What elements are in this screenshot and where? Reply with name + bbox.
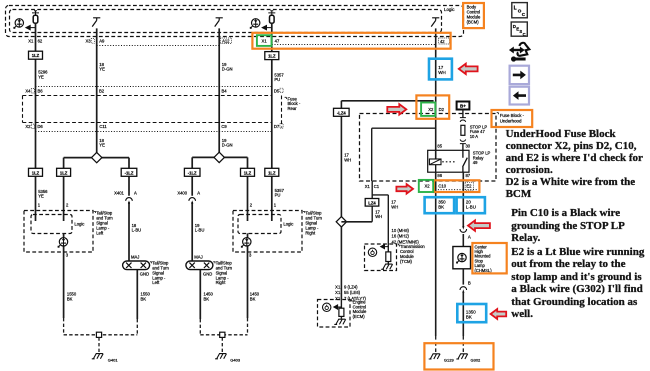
svg-text:D6: D6 [37,124,43,129]
svg-text:Right: Right [305,230,316,235]
svg-text:B4: B4 [221,88,227,93]
svg-text:X1: X1 [335,284,341,289]
svg-text:1: 1 [38,202,41,207]
svg-text:1LZ: 1LZ [268,54,276,59]
svg-text:1: 1 [274,202,277,207]
svg-text:X4: X4 [25,88,31,93]
svg-text:62: 62 [38,38,43,43]
svg-text:C1: C1 [374,184,380,189]
svg-text:D5: D5 [274,88,280,93]
svg-text:86: 86 [437,173,442,178]
svg-text:X1: X1 [262,38,268,43]
svg-text:55 (LE6): 55 (LE6) [344,290,361,295]
svg-text:-1LZ: -1LZ [125,170,134,175]
svg-text:D-GN: D-GN [222,67,233,72]
svg-text:42: 42 [440,39,445,44]
svg-text:1LZ: 1LZ [32,170,40,175]
svg-text:X401: X401 [114,191,124,196]
svg-text:BK: BK [466,314,472,319]
svg-text:D7: D7 [274,124,280,129]
svg-text:YE: YE [99,143,105,148]
svg-text:X400: X400 [177,191,187,196]
svg-text:A9: A9 [99,38,105,43]
svg-text:Left: Left [96,230,104,235]
svg-text:X1: X1 [28,38,34,43]
svg-text:L-BU: L-BU [195,228,205,233]
svg-text:D2: D2 [439,107,445,112]
svg-text:BK: BK [67,296,73,301]
svg-text:WH: WH [438,70,446,75]
svg-text:B6: B6 [37,88,43,93]
svg-text:BK: BK [141,296,147,301]
svg-text:BK: BK [438,204,444,209]
svg-text:L: L [514,5,517,11]
svg-text:10 A: 10 A [470,134,479,139]
svg-text:MAJ: MAJ [131,255,139,260]
svg-text:MAJ: MAJ [194,255,202,260]
svg-text:85: 85 [437,144,442,149]
svg-text:A: A [468,234,471,239]
svg-text:PU: PU [275,193,281,198]
svg-text:A: A [134,191,137,196]
svg-text:16 (MH2): 16 (MH2) [392,234,410,239]
svg-text:LZ4: LZ4 [368,200,376,205]
svg-text:1LZ: 1LZ [244,170,252,175]
svg-text:GND: GND [140,271,149,276]
svg-text:Right: Right [216,280,227,285]
svg-text:Fuse Block -: Fuse Block - [500,113,525,118]
svg-text:X1: X1 [365,184,371,189]
svg-text:Left: Left [152,280,160,285]
svg-text:(TCM): (TCM) [400,259,412,264]
svg-text:X3: X3 [85,38,91,43]
svg-text:GND: GND [203,271,212,276]
svg-text:X1: X1 [335,296,341,301]
svg-text:G403: G403 [230,358,241,363]
svg-text:-LZ4: -LZ4 [337,110,347,115]
svg-text:Rear: Rear [288,106,298,111]
svg-text:2: 2 [66,202,69,207]
svg-text:47: 47 [275,38,280,43]
svg-text:10 (MH8): 10 (MH8) [392,228,410,233]
svg-text:C: C [523,32,526,37]
svg-text:YE: YE [38,74,44,79]
svg-text:D-GN: D-GN [222,143,233,148]
svg-text:-1LZ: -1LZ [188,170,197,175]
svg-text:Logic: Logic [74,221,84,226]
svg-text:Underhood: Underhood [500,118,522,123]
svg-text:87: 87 [465,173,470,178]
svg-text:YE: YE [99,67,105,72]
svg-text:C11: C11 [99,124,107,129]
svg-text:1LZ: 1LZ [60,170,68,175]
svg-text:YE: YE [38,194,44,199]
svg-text:G302: G302 [471,358,482,363]
svg-text:WH: WH [375,214,382,219]
svg-text:B: B [468,281,471,286]
svg-text:(BCM): (BCM) [467,19,480,24]
svg-text:X2: X2 [428,107,434,112]
svg-text:X1: X1 [335,290,341,295]
svg-text:A12: A12 [222,38,230,43]
svg-text:G129: G129 [444,358,455,363]
svg-text:WH: WH [344,157,351,162]
svg-text:X2: X2 [425,184,431,189]
svg-text:G401: G401 [108,358,119,363]
svg-text:3: 3 [66,252,69,257]
svg-text:C9: C9 [221,124,227,129]
svg-text:B+: B+ [460,104,466,109]
svg-text:E2: E2 [466,184,472,189]
svg-text:49: 49 [473,160,478,165]
svg-text:(CHMSL): (CHMSL) [475,268,493,273]
svg-text:BK: BK [250,296,256,301]
svg-text:A: A [197,191,200,196]
svg-text:C10: C10 [438,184,446,189]
svg-text:X2: X2 [25,124,31,129]
svg-text:BK: BK [204,296,210,301]
svg-text:1LZ: 1LZ [268,170,276,175]
svg-text:B2: B2 [99,88,105,93]
svg-text:Logic: Logic [283,221,293,226]
svg-text:L-BU: L-BU [466,204,476,209]
svg-text:1LZ: 1LZ [32,53,40,58]
svg-text:PU: PU [274,77,280,82]
svg-text:30: 30 [465,144,470,149]
svg-text:(ECM): (ECM) [353,314,366,319]
svg-text:Logic: Logic [444,7,455,12]
svg-text:WH: WH [391,204,398,209]
svg-text:2: 2 [250,202,253,207]
svg-text:L-BU: L-BU [132,228,142,233]
svg-text:3: 3 [249,252,252,257]
svg-text:9 (LZ4): 9 (LZ4) [344,284,358,289]
